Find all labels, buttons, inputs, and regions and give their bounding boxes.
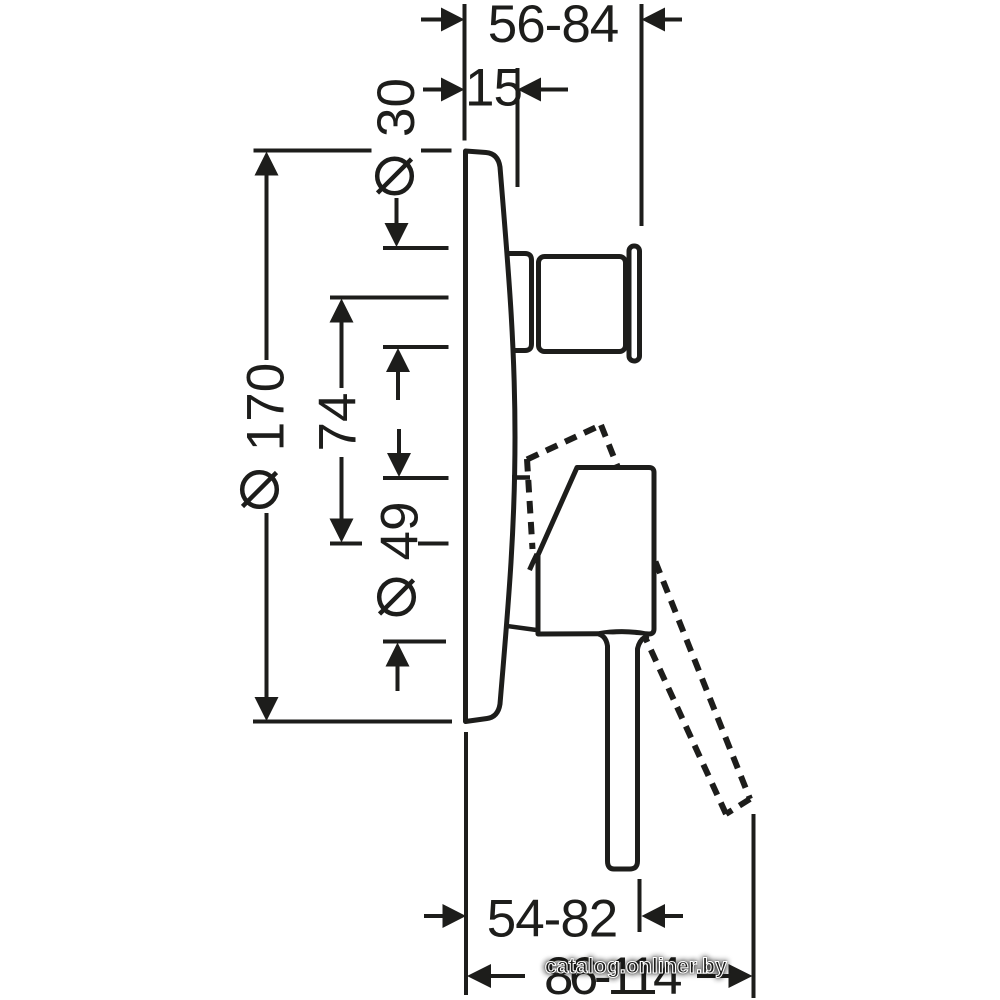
knob end cap [629, 246, 640, 361]
svg-text:15: 15 [465, 59, 522, 118]
knob collar [498, 254, 532, 351]
dimension 74 [309, 299, 368, 543]
svg-text:74: 74 [309, 393, 368, 452]
svg-text:49: 49 [371, 502, 430, 561]
svg-text:30: 30 [367, 78, 426, 137]
cartridge flange bottom edge [507, 626, 537, 630]
svg-text:54-82: 54-82 [487, 890, 618, 949]
dimension 15 [423, 59, 568, 118]
handle hub spur [530, 554, 538, 570]
dimension 56-84 [421, 0, 682, 54]
dimension 86-114 [467, 947, 753, 1000]
cartridge flange top edge [512, 475, 530, 480]
dimension Ø30 [367, 78, 426, 400]
dimension Ø49 [371, 429, 430, 691]
svg-text:170: 170 [237, 363, 296, 451]
dashed handle alternate position [527, 425, 750, 814]
svg-text:56-84: 56-84 [488, 0, 619, 54]
knob cylinder [539, 257, 626, 352]
dimension 54-82 [424, 890, 683, 949]
escutcheon plate (side view) [466, 151, 516, 722]
svg-text:catalog.onliner.by: catalog.onliner.by [545, 955, 727, 978]
lever arm [599, 634, 649, 869]
extension lines horizontal [253, 151, 452, 722]
dimension Ø170 [237, 152, 296, 722]
handle hub [538, 468, 654, 635]
extension lines vertical [465, 4, 754, 998]
